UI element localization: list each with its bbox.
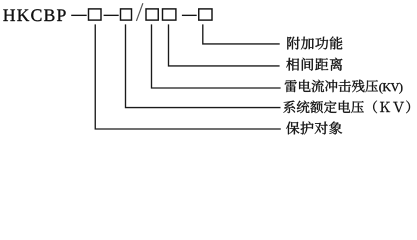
label 1: additional function (fu jia gong neng) — [287, 37, 342, 50]
field box 5 (additional function) — [199, 9, 212, 20]
slash separator — [136, 3, 143, 21]
field box 1 (protection object) — [89, 9, 102, 20]
field box 4 (phase spacing) — [163, 9, 176, 20]
label 2: phase spacing (xiang jian ju li) — [286, 58, 342, 71]
label 4: system rated voltage with fullwidth KV — [283, 101, 410, 114]
leader line from box 4 to label phase spacing — [169, 24, 280, 66]
label 5: protection object (bao hu dui xiang) — [286, 122, 342, 135]
leader line from box 5 to label additional function — [203, 24, 280, 44]
model prefix text HKCBP — [3, 9, 65, 21]
dash separator 1 — [71, 14, 87, 16]
dash separator 2 — [104, 14, 119, 16]
leader line from box 1 to label protection object — [95, 24, 281, 129]
leader line from box 3 to label lightning impulse residual voltage — [152, 24, 281, 88]
field box 2 (system rated voltage) — [121, 9, 132, 20]
leader line from box 2 to label system rated voltage — [126, 24, 281, 107]
dash separator 3 — [182, 14, 197, 16]
label 3: lightning impulse residual voltage (lei dian liu chong ji can ya) — [285, 80, 378, 93]
label 3 unit (KV) — [379, 83, 402, 94]
field box 3 (lightning impulse residual voltage) — [146, 9, 158, 20]
